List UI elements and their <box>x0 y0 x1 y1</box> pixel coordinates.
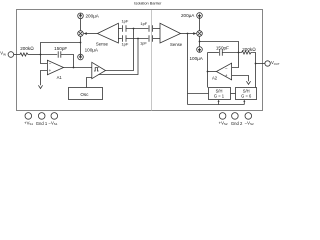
svg-text:G = 6: G = 6 <box>241 93 252 98</box>
capacitor C1 150pF <box>54 46 67 58</box>
svg-text:200kΩ: 200kΩ <box>20 46 34 51</box>
capacitor C5 1pF barrier bottom <box>140 35 153 45</box>
switch S2 demodulator <box>197 31 203 37</box>
svg-text:G = 1: G = 1 <box>214 93 225 98</box>
op-amp A2 <box>212 63 232 80</box>
wire modulator feedback to summing node <box>41 43 81 55</box>
wire VIN to R1 <box>14 54 19 56</box>
wire switch to junction <box>80 36 82 42</box>
svg-text:150pF: 150pF <box>54 46 67 51</box>
capacitor C6 150pF <box>216 46 229 56</box>
wire sense junction down <box>187 34 189 105</box>
wire A1 plus input to ground <box>41 71 48 86</box>
wire comparator output to top row <box>106 29 134 71</box>
terminal Gnd 2 <box>231 113 243 126</box>
wire demod junction to A2 inverting input <box>200 42 239 68</box>
node summing junction <box>40 54 42 56</box>
wire I1 to switch <box>80 19 82 31</box>
wire junction to I4 <box>199 42 201 47</box>
terminal +VS1 <box>24 113 33 127</box>
svg-text:1pF: 1pF <box>121 19 128 24</box>
node bottom row junction <box>137 38 139 40</box>
wire switch S2 down to junction <box>199 36 201 41</box>
arrow clock into S/H 2 <box>243 100 245 105</box>
sense amp right <box>160 23 183 47</box>
S/H box 1 <box>209 88 231 100</box>
terminal VIN <box>0 51 13 58</box>
svg-text:200µA: 200µA <box>86 13 100 18</box>
wire summing node down to A1 inverting input <box>41 55 48 64</box>
arrow clock into S/H 1 <box>218 100 220 105</box>
wire between S/H boxes <box>231 93 236 95</box>
svg-text:−: − <box>225 66 228 71</box>
node feedback junction <box>238 52 240 54</box>
svg-text:+VS1: +VS1 <box>24 120 33 126</box>
wire A2 output to feedback node <box>208 71 217 73</box>
wire C6 to feedback junction <box>222 52 241 54</box>
wire to Vout terminal <box>256 63 265 65</box>
svg-text:A2: A2 <box>212 75 218 80</box>
svg-text:Sense: Sense <box>170 42 183 47</box>
svg-text:VIN: VIN <box>0 51 6 57</box>
svg-text:+: + <box>49 68 52 73</box>
node A1 output junction <box>73 67 75 69</box>
wire junction to I2 <box>80 43 82 55</box>
wire top row left <box>118 28 121 30</box>
op-amp A1 <box>47 60 63 80</box>
svg-text:+: + <box>225 73 228 78</box>
terminal -VS2 <box>245 113 254 127</box>
svg-text:1pF: 1pF <box>121 42 128 47</box>
svg-text:Sense: Sense <box>96 42 109 47</box>
current source I2 100uA <box>78 48 99 60</box>
wire Vout node down to S/H 2 <box>255 64 257 88</box>
oscillator box <box>69 88 103 100</box>
wire bottom row right <box>153 38 160 40</box>
wire to S/H 1 input <box>188 93 209 95</box>
wire C1 to A1 output <box>61 55 74 68</box>
terminal -VS1 <box>49 113 58 127</box>
sense amp left <box>96 23 119 46</box>
svg-text:Gnd 2: Gnd 2 <box>231 121 243 126</box>
wire A2 plus input to ground <box>232 76 249 82</box>
svg-text:−VS2: −VS2 <box>245 120 254 126</box>
ground arrow A1 <box>38 85 42 88</box>
svg-text:−VS1: −VS1 <box>49 120 58 126</box>
wire top row right <box>153 28 160 30</box>
wire top row mid <box>126 28 148 30</box>
wire A2 output down to S/H 1 <box>207 72 209 88</box>
wire osc to comparator <box>87 78 92 88</box>
svg-text:1pF: 1pF <box>140 40 147 45</box>
node top row junction <box>133 28 135 30</box>
capacitor C4 1pF <box>121 35 128 47</box>
wire bottom row mid <box>126 38 148 40</box>
resistor R2 200k <box>242 47 257 54</box>
wire comparator lower output to bottom row <box>99 39 139 75</box>
terminal Gnd 1 <box>36 113 48 126</box>
wire R2 to Vout node <box>253 53 256 64</box>
wire R1 to summing node <box>30 54 41 56</box>
svg-text:150pF: 150pF <box>216 46 229 51</box>
node Vout junction <box>255 63 257 65</box>
outer package border <box>17 10 263 111</box>
capacitor C3 1pF barrier top <box>140 21 152 32</box>
terminal +VS2 <box>219 113 228 127</box>
svg-text:100µA: 100µA <box>85 48 99 53</box>
terminal VOUT <box>265 60 280 66</box>
wire A1 output to comparator <box>64 67 92 69</box>
svg-text:200kΩ: 200kΩ <box>242 47 256 52</box>
comparator U1 <box>92 62 106 78</box>
node demod junction <box>199 41 201 43</box>
isolation barrier line <box>151 10 153 111</box>
wire bottom row left <box>118 38 121 40</box>
capacitor C2 1pF <box>121 19 128 32</box>
current source I1 200uA <box>78 13 100 19</box>
wire A2 output up to C6 row <box>207 53 209 72</box>
current source I4 100uA <box>190 47 204 61</box>
svg-text:Gnd 1: Gnd 1 <box>36 121 48 126</box>
wire I3 to switch S2 <box>199 18 201 30</box>
svg-text:200µA: 200µA <box>181 13 195 18</box>
wire sense right output to switch arrow <box>181 32 197 35</box>
svg-text:Osc: Osc <box>80 92 89 97</box>
resistor R1 200k <box>19 46 35 56</box>
svg-text:Isolation Barrier: Isolation Barrier <box>134 1 162 6</box>
svg-text:+VS2: +VS2 <box>219 120 228 126</box>
wire summing node to C1 <box>41 54 58 56</box>
svg-text:100µA: 100µA <box>190 56 204 61</box>
svg-text:A1: A1 <box>57 75 63 80</box>
node sense output junction <box>187 33 189 35</box>
S/H box 2 <box>236 88 257 100</box>
node A2 output junction <box>207 71 209 73</box>
wire feedback row left <box>208 52 219 54</box>
svg-text:VOUT: VOUT <box>271 60 280 66</box>
svg-text:1pF: 1pF <box>140 21 147 26</box>
switch S1 modulator <box>78 31 84 37</box>
current source I3 200uA <box>181 13 202 19</box>
wire clock bus <box>188 104 245 106</box>
svg-text:−: − <box>49 61 52 66</box>
ground arrow A2 <box>246 81 250 84</box>
wire sense amp output arrow to switch <box>83 32 97 35</box>
node modulator junction <box>80 42 82 44</box>
